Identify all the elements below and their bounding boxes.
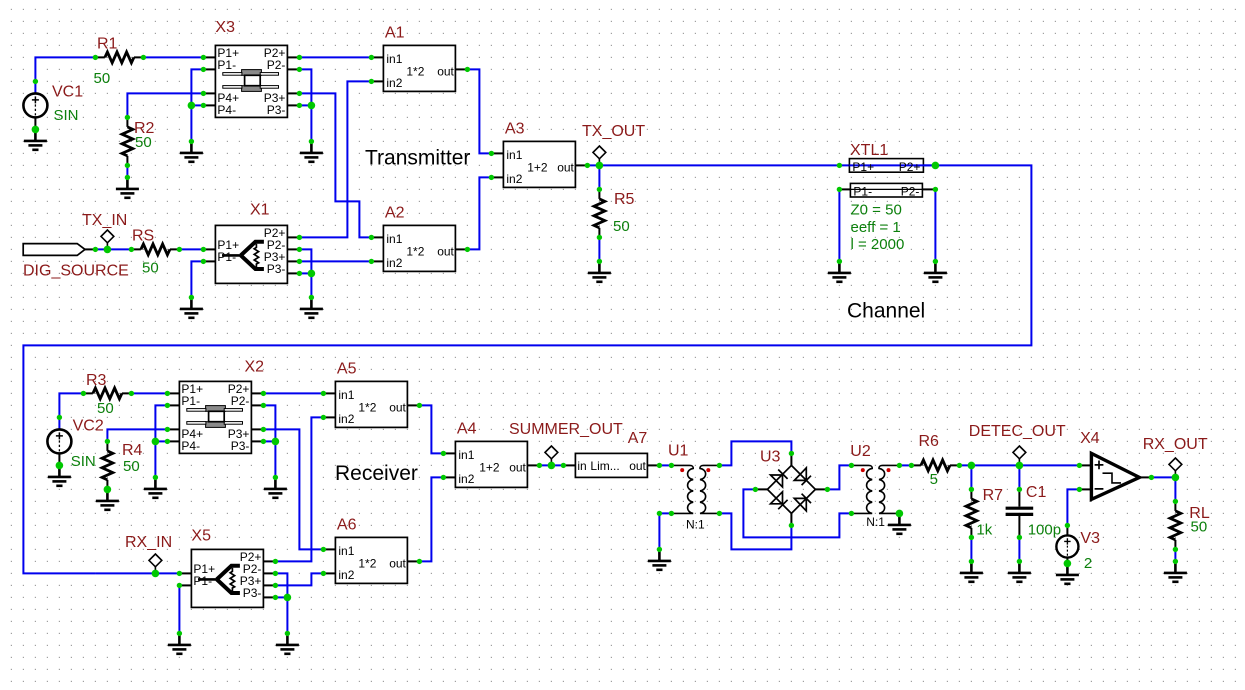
- svg-text:Channel: Channel: [847, 300, 925, 323]
- ground below V3: [1056, 563, 1079, 583]
- svg-text:50: 50: [613, 218, 630, 235]
- resistor R5: [594, 189, 605, 261]
- ground below X5 right: [276, 633, 299, 653]
- svg-text:P2+: P2+: [899, 160, 921, 174]
- limiter A7: [563, 453, 659, 477]
- svg-text:in1: in1: [386, 232, 402, 246]
- node RX_OUT diamond: [1169, 458, 1182, 477]
- svg-text:in1: in1: [338, 544, 354, 558]
- svg-text:R7: R7: [983, 487, 1004, 504]
- voltage source VC2: [47, 429, 71, 466]
- svg-text:U2: U2: [850, 443, 871, 460]
- wire X1 P2+ to A1 in2: [299, 81, 371, 237]
- svg-text:P2-: P2-: [267, 58, 286, 72]
- wire U1 top to U3 top: [719, 441, 791, 465]
- svg-text:R5: R5: [614, 191, 635, 208]
- pin node dots: [33, 55, 1178, 636]
- svg-text:Receiver: Receiver: [335, 462, 418, 485]
- wire X2 P4- join: [155, 440, 167, 442]
- svg-text:in2: in2: [386, 256, 402, 270]
- ground below C1: [1008, 561, 1031, 581]
- svg-text:VC1: VC1: [52, 84, 83, 101]
- ground below RL: [1164, 561, 1187, 581]
- svg-text:1k: 1k: [976, 522, 992, 539]
- svg-text:A5: A5: [337, 360, 357, 377]
- wire X5 P1- to ground: [178, 585, 180, 633]
- resistor R7: [966, 489, 977, 561]
- svg-text:V3: V3: [1080, 530, 1100, 547]
- ground below X2 right: [264, 477, 287, 497]
- wire R6 to R7: [970, 465, 972, 489]
- svg-text:P3-: P3-: [267, 103, 286, 117]
- ground below U2: [888, 513, 911, 533]
- wire X5 P3- join: [275, 596, 287, 598]
- ground below R7: [960, 561, 983, 581]
- svg-text:SUMMER_OUT: SUMMER_OUT: [509, 421, 623, 438]
- svg-text:P1-: P1-: [853, 184, 872, 198]
- svg-text:X5: X5: [191, 528, 211, 545]
- wire R6 to opamp plus input: [959, 464, 1079, 466]
- subcircuit X1: [203, 225, 299, 283]
- wire X3 P2+ to A1 in1: [299, 56, 371, 58]
- wire X2 P2+ to A5 in1: [263, 392, 323, 394]
- svg-text:R3: R3: [86, 372, 107, 389]
- wire A6 out to A4 in2: [419, 477, 443, 561]
- svg-text:out: out: [437, 244, 454, 258]
- svg-text:in1: in1: [506, 148, 522, 162]
- node RX_IN diamond: [149, 554, 162, 573]
- ground below VC1: [24, 129, 47, 149]
- svg-text:out: out: [389, 400, 406, 414]
- ground below VC2: [48, 465, 71, 485]
- svg-text:X4: X4: [1080, 430, 1100, 447]
- resistor RL: [1170, 501, 1181, 561]
- wire X1 P3+ to A2 in2: [299, 260, 371, 262]
- svg-text:in2: in2: [386, 76, 402, 90]
- ground below XTL1 left: [828, 261, 851, 281]
- wire X3 P2- P3- to ground: [299, 69, 311, 141]
- svg-text:N:1: N:1: [866, 515, 885, 529]
- wire X2 P1- P4- to ground: [155, 405, 167, 477]
- svg-text:X1: X1: [250, 202, 270, 219]
- svg-text:P3-: P3-: [267, 262, 286, 276]
- svg-text:A6: A6: [337, 516, 357, 533]
- svg-text:eeff = 1: eeff = 1: [851, 219, 901, 236]
- wire X5 P2- P3- to ground: [275, 573, 287, 633]
- svg-text:1+2: 1+2: [479, 460, 500, 474]
- svg-text:A4: A4: [457, 420, 477, 437]
- svg-text:50: 50: [135, 134, 152, 151]
- resistor R2: [122, 117, 133, 177]
- svg-text:VC2: VC2: [73, 418, 104, 435]
- ground below R2: [116, 177, 139, 197]
- wire U2 top to R6: [899, 464, 911, 466]
- wire X3 P4- join: [191, 104, 203, 106]
- wire A5 out to A4 in1: [419, 405, 443, 453]
- wire RX_IN to X5 P1+: [95, 572, 179, 574]
- svg-text:P3-: P3-: [243, 586, 262, 600]
- wire XTL1 P1- to ground: [838, 189, 840, 261]
- svg-text:1*2: 1*2: [358, 400, 376, 414]
- svg-text:in1: in1: [386, 52, 402, 66]
- voltage source VC1: [23, 93, 47, 130]
- svg-text:TX_OUT: TX_OUT: [582, 123, 645, 140]
- ground below X3 right: [300, 141, 323, 161]
- ground below X2 left: [144, 477, 167, 497]
- svg-text:TX_IN: TX_IN: [82, 212, 127, 229]
- wire X2 P3- join: [263, 440, 275, 442]
- wire VC2 to R3: [59, 393, 83, 429]
- wire X3 P1- P4- to ground: [191, 69, 203, 141]
- wire U3 left to U2 primary bottom: [743, 489, 851, 537]
- wire X1 P1- to ground: [191, 261, 203, 297]
- wire U1 secondary low to ground: [659, 513, 671, 549]
- svg-text:R1: R1: [97, 36, 118, 53]
- node DETEC_OUT diamond: [1013, 446, 1026, 465]
- ground below R5: [588, 261, 611, 281]
- resistor R6: [911, 460, 959, 471]
- amplifier A3: [491, 141, 587, 187]
- svg-text:out: out: [557, 160, 574, 174]
- wire port to RS: [95, 248, 131, 250]
- resistor RS: [131, 244, 179, 255]
- wire TX_OUT to R5: [598, 165, 600, 189]
- ground below XTL1 right: [924, 261, 947, 281]
- svg-text:in2: in2: [506, 172, 522, 186]
- wire RS to X1 P1+: [179, 248, 203, 250]
- svg-text:out: out: [389, 556, 406, 570]
- voltage source V3: [1056, 525, 1078, 564]
- op-amp X4: [1079, 453, 1151, 499]
- node TX_IN diamond: [101, 230, 114, 249]
- wire X5 P2+ to A5 in2: [275, 417, 323, 561]
- capacitor C1: [1006, 489, 1034, 537]
- wire A7 out to U1: [659, 464, 671, 466]
- svg-text:P2-: P2-: [901, 184, 920, 198]
- svg-text:X2: X2: [245, 359, 265, 376]
- transformer U2: [851, 465, 900, 513]
- svg-text:in1: in1: [338, 388, 354, 402]
- svg-text:P4-: P4-: [181, 439, 200, 453]
- resistor R1: [95, 52, 143, 63]
- svg-text:A2: A2: [385, 204, 405, 221]
- svg-text:SIN: SIN: [71, 453, 96, 470]
- svg-text:1*2: 1*2: [406, 244, 424, 258]
- wire A1 out to A3 in1: [467, 69, 491, 153]
- wire RX_OUT to RL: [1174, 477, 1176, 501]
- svg-text:out: out: [509, 460, 526, 474]
- svg-text:out: out: [629, 459, 646, 473]
- svg-text:A1: A1: [385, 24, 405, 41]
- wire R1 to X3 P1+: [143, 56, 203, 58]
- node SUMMER_OUT diamond: [545, 446, 558, 465]
- wire X3 P4+ to R2: [127, 93, 203, 117]
- wire X3 P3- join: [299, 104, 311, 106]
- wire X2 P4+ to R4: [107, 429, 167, 441]
- ground below R4: [96, 489, 119, 509]
- svg-text:100p: 100p: [1028, 522, 1061, 539]
- svg-text:N:1: N:1: [686, 518, 705, 532]
- amplifier A4: [443, 441, 539, 487]
- svg-text:RX_IN: RX_IN: [125, 534, 172, 551]
- svg-text:in2: in2: [338, 412, 354, 426]
- ground below X3 left: [180, 141, 203, 161]
- svg-text:out: out: [437, 64, 454, 78]
- svg-text:RS: RS: [132, 228, 154, 245]
- svg-text:P2-: P2-: [231, 394, 250, 408]
- wire XTL1 P2- to ground: [934, 189, 936, 261]
- subcircuit X2: [167, 381, 263, 453]
- wire C1 to ground: [1018, 537, 1020, 561]
- svg-text:50: 50: [142, 260, 159, 277]
- svg-text:XTL1: XTL1: [850, 142, 888, 159]
- svg-text:2: 2: [1084, 555, 1092, 572]
- svg-text:in2: in2: [338, 568, 354, 582]
- svg-text:P1+: P1+: [852, 160, 874, 174]
- wire junction dots: [32, 102, 1180, 602]
- wire U1 bottom to U3 bottom: [719, 513, 791, 549]
- wire opamp out to RX_OUT: [1151, 476, 1175, 478]
- wire DETEC_OUT to C1: [1018, 465, 1020, 489]
- subcircuit X3: [203, 45, 299, 117]
- wire X1 P3- join: [299, 272, 311, 274]
- svg-text:A7: A7: [628, 430, 648, 447]
- svg-text:50: 50: [123, 458, 140, 475]
- wire R3 to X2 P1+: [131, 392, 167, 394]
- svg-text:A3: A3: [505, 120, 525, 137]
- svg-text:5: 5: [930, 471, 938, 488]
- svg-text:U3: U3: [760, 449, 781, 466]
- svg-text:P1-: P1-: [181, 394, 200, 408]
- svg-text:1*2: 1*2: [358, 556, 376, 570]
- svg-text:P1-: P1-: [193, 574, 212, 588]
- ground below X1 left: [180, 297, 203, 317]
- wire A3 out to XTL1 and channel corner: [23, 165, 1031, 573]
- resistor R4: [102, 441, 113, 489]
- amplifier A2: [371, 225, 467, 271]
- svg-text:in: in: [577, 459, 586, 473]
- transformer U1: [672, 465, 721, 513]
- svg-text:50: 50: [1191, 519, 1208, 536]
- wire X2 P2- P3- to ground: [263, 405, 275, 477]
- svg-text:50: 50: [94, 70, 111, 87]
- ground below X5 left: [168, 633, 191, 653]
- amplifier A5: [323, 381, 419, 427]
- svg-text:R4: R4: [122, 442, 143, 459]
- svg-text:U1: U1: [668, 443, 689, 460]
- svg-text:1*2: 1*2: [406, 64, 424, 78]
- svg-text:P1-: P1-: [217, 58, 236, 72]
- wire X2 P3+ to A6 in1: [263, 429, 323, 549]
- svg-text:Lim...: Lim...: [590, 459, 619, 473]
- svg-text:Transmitter: Transmitter: [365, 147, 470, 170]
- ground below U1: [648, 549, 671, 569]
- wire VC1 to R1: [35, 57, 95, 93]
- diode ring U3: [755, 453, 827, 525]
- subcircuit X5: [179, 549, 275, 607]
- wire opamp minus input to V3: [1067, 489, 1079, 525]
- svg-text:SIN: SIN: [54, 107, 79, 124]
- amplifier A1: [371, 45, 467, 91]
- svg-text:C1: C1: [1026, 484, 1047, 501]
- svg-text:in1: in1: [458, 448, 474, 462]
- port DIG_SOURCE: [23, 244, 95, 256]
- wire U3 right to U2 primary top: [827, 465, 851, 489]
- svg-text:DIG_SOURCE: DIG_SOURCE: [23, 262, 129, 279]
- amplifier A6: [323, 537, 419, 583]
- svg-text:l = 2000: l = 2000: [851, 236, 905, 253]
- transmission line XTL1: [839, 159, 935, 199]
- svg-text:DETEC_OUT: DETEC_OUT: [969, 423, 1066, 440]
- svg-text:in2: in2: [458, 472, 474, 486]
- resistor R3: [83, 388, 131, 399]
- wire X3 P3+ to A2 in1: [299, 93, 371, 237]
- wire X5 P3+ to A6 in2: [275, 573, 323, 585]
- svg-text:P3-: P3-: [231, 439, 250, 453]
- svg-text:1+2: 1+2: [527, 160, 548, 174]
- wire X1 P2- P3- to ground: [299, 249, 311, 297]
- node TX_OUT diamond: [593, 146, 606, 165]
- wire A2 out to A3 in2: [467, 177, 491, 249]
- svg-text:R6: R6: [919, 433, 940, 450]
- svg-text:P4-: P4-: [217, 103, 236, 117]
- svg-text:50: 50: [97, 400, 114, 417]
- svg-text:P1-: P1-: [217, 250, 236, 264]
- wire A4 out to A7 in: [539, 464, 563, 466]
- svg-text:Z0 = 50: Z0 = 50: [851, 201, 902, 218]
- svg-text:RX_OUT: RX_OUT: [1143, 436, 1208, 453]
- svg-text:X3: X3: [215, 19, 235, 36]
- ground below X1 right: [300, 297, 323, 317]
